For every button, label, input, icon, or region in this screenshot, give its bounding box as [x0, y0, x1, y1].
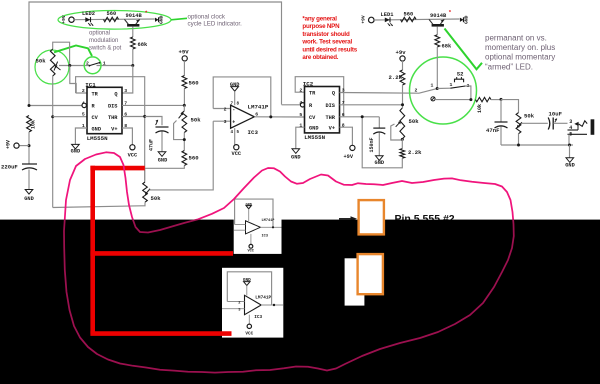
node IC3 output junction — [269, 115, 272, 118]
transistor Q2 9014B — [432, 24, 444, 27]
wire IC2 GND pin — [296, 127, 305, 148]
jack sleeve bar — [591, 119, 595, 135]
mod pot wiper arrow — [55, 65, 61, 70]
svg-text:4: 4 — [299, 100, 302, 106]
jack tip contact — [574, 122, 578, 126]
node rail-pot junction — [517, 144, 520, 147]
node +9V junction — [28, 144, 31, 147]
svg-text:LM741P: LM741P — [255, 295, 271, 300]
svg-text:+9V: +9V — [360, 15, 366, 24]
wire 10k to node — [491, 99, 501, 101]
resistor 560 mid lower — [182, 151, 187, 166]
wire 2.2k to DIS node — [402, 85, 404, 108]
resistor 10k left — [27, 116, 32, 133]
wire +9V terminal — [19, 145, 29, 147]
svg-text:cycle LED indicator.: cycle LED indicator. — [188, 20, 243, 27]
svg-text:10uF: 10uF — [549, 111, 563, 118]
potentiometer 50k bottom — [143, 182, 148, 202]
resistor 2.2k upper — [400, 70, 405, 85]
svg-text:VCC: VCC — [232, 151, 242, 157]
bottom pot wiper arrow — [145, 189, 150, 195]
svg-text:LM555N: LM555N — [87, 135, 108, 142]
wire jack to gnd rail — [568, 134, 570, 145]
svg-text:V+: V+ — [111, 126, 117, 132]
svg-text:IC3: IC3 — [248, 129, 259, 136]
node pot-CV junction — [51, 115, 54, 118]
ground IC1 — [72, 144, 80, 149]
terminal +9V LED1 — [369, 17, 375, 23]
wire IC1 THR — [122, 116, 145, 118]
svg-text:220uF: 220uF — [1, 164, 18, 171]
svg-text:50k: 50k — [36, 58, 47, 65]
svg-text:LED2: LED2 — [82, 11, 95, 17]
svg-text:LM741P: LM741P — [248, 104, 269, 111]
jack body lines — [568, 129, 579, 131]
svg-text:LM741P: LM741P — [262, 219, 275, 223]
wire 68k to S2 node — [436, 47, 438, 89]
svg-text:1: 1 — [103, 61, 106, 67]
svg-text:47uF: 47uF — [149, 139, 155, 151]
arrow to orange box — [339, 218, 352, 220]
svg-text:3: 3 — [224, 119, 227, 125]
svg-text:VCC: VCC — [128, 153, 138, 159]
wire 47nF to rail — [500, 127, 502, 146]
resistor 560 mid upper — [182, 76, 187, 89]
svg-text:“armed” LED.: “armed” LED. — [485, 62, 533, 71]
wire IC1 DIS to 560 node — [122, 104, 184, 106]
svg-text:optional momentary: optional momentary — [485, 53, 555, 62]
svg-text:IC2: IC2 — [303, 81, 314, 88]
wire IC1 reset pin net — [29, 105, 82, 107]
green pointer modulation — [54, 46, 92, 57]
svg-text:GND: GND — [158, 15, 164, 24]
wire out pot wiper to 10uF — [522, 122, 548, 124]
green pointer clock text — [171, 18, 187, 20]
potentiometer 50k output — [516, 113, 521, 134]
svg-text:560: 560 — [189, 80, 200, 87]
wire IC2 V+ pin — [340, 127, 353, 145]
wire 68k to switch node — [132, 49, 134, 66]
IC2 reset bubble — [300, 103, 304, 107]
svg-text:TR: TR — [92, 91, 99, 97]
wire S2 pin2 down — [465, 86, 471, 100]
green circle around switch S1 — [84, 57, 101, 74]
svg-text:switch & pot: switch & pot — [89, 46, 122, 52]
svg-text:transistor should: transistor should — [302, 31, 350, 38]
svg-text:CV: CV — [92, 115, 99, 121]
green circle around S2 — [410, 57, 477, 124]
orange highlight box 1 — [359, 200, 384, 234]
wire pot to 560 lower — [183, 133, 185, 151]
pink outline over black — [64, 152, 514, 372]
node switch-pot junction — [68, 64, 71, 67]
svg-text:+9V: +9V — [344, 154, 354, 160]
svg-text:*: * — [145, 10, 148, 17]
svg-text:+9v: +9v — [396, 49, 407, 56]
svg-text:+9V: +9V — [179, 49, 190, 56]
wire IC2 Q output — [340, 92, 420, 95]
white box behind orange 2 — [345, 258, 365, 305]
LED D2 symbol — [85, 17, 90, 22]
svg-text:GND: GND — [92, 126, 102, 132]
wire IC2 reset pin net — [282, 104, 301, 106]
S2 bracket — [455, 79, 464, 82]
svg-text:2: 2 — [82, 88, 85, 94]
svg-text:LM555N: LM555N — [304, 134, 325, 141]
svg-text:2: 2 — [415, 88, 418, 94]
terminal +9V mid — [182, 56, 187, 61]
red annotation middle segment — [90, 251, 233, 256]
svg-text:work. Test several: work. Test several — [301, 39, 352, 46]
wire IC2 THR — [340, 116, 380, 118]
op-amp copy 1 triangle — [246, 221, 261, 234]
node output RC junction — [500, 98, 503, 101]
wire 10uF to jack — [553, 122, 567, 124]
capacitor 47uF — [156, 126, 169, 128]
terminal +9V IC2 — [350, 145, 355, 150]
op-amp copy 1 VCC — [250, 234, 252, 245]
terminal +9v right — [400, 56, 405, 61]
47uF polarity arrow — [156, 120, 158, 125]
svg-text:momentary on. plus: momentary on. plus — [485, 43, 555, 52]
node DIS junction — [183, 104, 186, 107]
10uF polarity mark — [555, 119, 557, 122]
wire pot to 2.2k lower — [401, 139, 403, 149]
wire +9V/reset rail top — [29, 2, 282, 106]
svg-text:50k: 50k — [191, 117, 202, 124]
orange highlight box 2 — [358, 254, 383, 294]
svg-text:-: - — [232, 107, 235, 113]
svg-text:permanant on vs.: permanant on vs. — [485, 33, 547, 42]
resistor 68k right — [435, 35, 440, 47]
transistor Q1 9014B — [127, 24, 139, 27]
switch lower lever — [419, 89, 437, 94]
svg-text:+: + — [232, 119, 235, 125]
node S2 junction — [436, 87, 439, 90]
wire Q1 node to IC1 pin3 — [122, 66, 133, 94]
node pot bottom junction — [183, 138, 186, 141]
wire switch row — [59, 65, 133, 67]
svg-text:modulation: modulation — [89, 38, 118, 44]
svg-text:*: * — [448, 9, 451, 16]
wire LED2 circuit top — [74, 18, 155, 21]
mid pot wiper arrow — [179, 112, 184, 118]
svg-text:GND: GND — [565, 163, 575, 169]
wire node to 47nF — [500, 100, 502, 122]
wire 150nF to GND — [378, 133, 380, 156]
svg-text:10k: 10k — [477, 104, 483, 113]
wire pot bottom to CV rail — [52, 76, 54, 208]
wire IC3 pin2 input — [213, 108, 230, 110]
pink outline over white — [64, 152, 514, 372]
mid pot wiper loop — [174, 121, 185, 140]
op-amp copy 1 inputs — [235, 224, 246, 226]
svg-text:2: 2 — [299, 87, 302, 93]
resistor 10k output — [476, 97, 492, 101]
node IC2 DIS junction — [401, 103, 404, 106]
wire 47uF to GND — [161, 132, 163, 152]
svg-text:1: 1 — [450, 82, 453, 88]
svg-text:560: 560 — [189, 155, 200, 162]
op-amp copy 1 wires — [235, 199, 273, 227]
wire node to out pot — [501, 100, 519, 113]
node reset junction — [28, 104, 31, 107]
wire 10k to +9V node — [28, 132, 30, 164]
op-amp U-IC3 triangle — [231, 105, 255, 128]
svg-text:V+: V+ — [329, 126, 335, 132]
svg-text:68k: 68k — [442, 43, 452, 49]
svg-text:VCC: VCC — [247, 250, 254, 254]
svg-text:10k: 10k — [31, 120, 37, 129]
op-amp copy 2 wires — [227, 272, 271, 305]
op-amp copy 2 triangle — [245, 295, 262, 314]
resistor 560 LED2 — [104, 17, 119, 22]
wire rail to GND — [569, 145, 571, 158]
red annotation vertical line — [90, 166, 95, 334]
red annotation top segment — [90, 166, 144, 171]
momentary contact circle — [431, 97, 435, 101]
wire IC3 pin3 input — [213, 120, 230, 122]
wire Q1 base to 68k — [132, 27, 134, 37]
svg-text:IC1: IC1 — [85, 81, 96, 88]
wire IC3 output to IC2 CV — [254, 116, 304, 118]
capacitor 150nF — [373, 127, 385, 129]
svg-text:GND: GND — [463, 15, 469, 24]
wire IC1 V+ pin — [122, 128, 132, 145]
ground IC2 — [292, 149, 300, 154]
svg-text:50k: 50k — [524, 113, 535, 120]
svg-text:3: 3 — [124, 88, 127, 94]
wire DIS node down — [183, 105, 185, 111]
terminal +9V LED2 circuit — [69, 17, 74, 22]
op-amp copy 2 inputs — [227, 301, 244, 303]
svg-text:9014B: 9014B — [126, 13, 143, 19]
wire out pot to rail — [518, 134, 520, 145]
capacitor 220uF — [22, 163, 37, 165]
svg-text:THR: THR — [108, 115, 118, 121]
terminal VCC IC1 — [130, 145, 135, 150]
wire CV to IC1 — [53, 116, 87, 118]
svg-text:150nF: 150nF — [369, 137, 375, 152]
svg-text:IC3: IC3 — [254, 315, 262, 320]
wire Q2 base to 68k — [436, 27, 438, 35]
svg-text:DIS: DIS — [108, 104, 118, 110]
svg-text:5: 5 — [299, 112, 302, 118]
wire IC1 TR pin net — [70, 66, 87, 94]
white box op-amp copy 1 — [234, 197, 282, 254]
capacitor 10uF — [548, 118, 550, 130]
svg-text:GND: GND — [291, 154, 301, 160]
svg-text:GND: GND — [24, 196, 34, 202]
svg-text:until desired results: until desired results — [302, 46, 357, 53]
svg-text:560: 560 — [404, 11, 414, 17]
wire 150nF stem — [378, 117, 380, 128]
wire 220uF to GND — [28, 170, 30, 190]
op-amp copy 1 output — [260, 226, 281, 228]
switch S2 lever — [451, 86, 466, 88]
out pot wiper arrow — [517, 122, 522, 128]
black mask band — [0, 220, 600, 384]
node rail-gnd junction — [568, 144, 571, 147]
wire +9v to 2.2k — [402, 61, 404, 70]
ground 150nF — [376, 156, 384, 161]
wire 2.2k to THR loop — [362, 117, 402, 168]
IC2 pot wiper arrow — [396, 121, 401, 126]
svg-text:68k: 68k — [138, 42, 148, 48]
svg-text:optional: optional — [89, 31, 110, 37]
svg-text:2: 2 — [86, 61, 89, 67]
node 10k input junction — [469, 98, 472, 101]
wire THR to 47uF — [145, 117, 162, 126]
svg-text:are obtained.: are obtained. — [302, 54, 338, 61]
svg-text:*any general: *any general — [302, 16, 337, 23]
wire IC3 gnd stem — [234, 91, 236, 105]
svg-text:1: 1 — [431, 82, 434, 88]
wire IC1 GND pin — [75, 128, 87, 144]
svg-text:+9V: +9V — [61, 15, 67, 24]
resistor 560 LED1 — [401, 17, 417, 22]
potentiometer 50k mid — [182, 111, 187, 133]
green circle around 50k pot — [35, 50, 69, 84]
svg-text:IC3: IC3 — [262, 235, 268, 239]
diode to GND right indicator — [460, 18, 464, 22]
wire momentary to 10k node — [435, 99, 471, 101]
svg-text:GND: GND — [158, 158, 168, 164]
op-amp copy 2 output — [261, 304, 283, 306]
svg-text:2.2k: 2.2k — [389, 74, 403, 81]
node THR junction IC2 — [361, 115, 364, 118]
svg-text:47nF: 47nF — [486, 127, 500, 134]
IC2 LM555N box — [305, 87, 340, 133]
svg-text:GND: GND — [71, 149, 81, 155]
red annotation bottom segment — [90, 331, 231, 336]
node IC2 pot bottom — [401, 138, 404, 141]
svg-text:50k: 50k — [409, 118, 420, 125]
green ellipse clock LED indicator — [58, 10, 171, 29]
svg-text:S2: S2 — [457, 70, 464, 77]
svg-text:GND: GND — [375, 160, 385, 166]
wire S2 node to lever — [437, 87, 450, 89]
svg-text:VCC: VCC — [245, 331, 253, 336]
node switch out junction — [131, 64, 134, 67]
potentiometer 50k modulation — [50, 49, 55, 76]
ground 47uF — [158, 152, 166, 157]
svg-text:TR: TR — [309, 91, 316, 97]
IC2 pot wiper loop — [391, 124, 403, 140]
wire IC3 vcc stem — [234, 128, 236, 144]
svg-text:560: 560 — [107, 11, 117, 17]
wire bottom pot wiper to IC3 pin3 — [150, 121, 214, 190]
svg-text:CV: CV — [309, 115, 316, 121]
svg-text:5: 5 — [82, 112, 85, 118]
node THR junction — [143, 115, 146, 118]
svg-text:2: 2 — [224, 106, 227, 112]
terminal +9V left — [14, 143, 19, 148]
wire LED1 circuit — [374, 19, 459, 20]
svg-text:optional clock: optional clock — [188, 13, 226, 20]
svg-text:THR: THR — [325, 115, 335, 121]
svg-text:GND: GND — [309, 126, 319, 132]
svg-text:DIS: DIS — [325, 103, 335, 109]
IC1 reset bubble — [82, 103, 86, 107]
wire to bottom 50k pot — [144, 168, 146, 182]
resistor 68k left — [131, 37, 136, 49]
ground left column — [25, 190, 33, 195]
wire 560 lower to red node — [145, 166, 185, 169]
capacitor 47nF — [495, 121, 508, 123]
wire IC1 TR-THR tie box — [76, 77, 145, 181]
white box op-amp copy 2 — [222, 268, 283, 338]
IC1 LM555N box — [87, 87, 122, 133]
LED D1 symbol — [385, 18, 390, 23]
svg-text:50k: 50k — [151, 195, 162, 202]
svg-text:purpose NPN: purpose NPN — [302, 23, 340, 30]
wire +9V to 560 — [183, 61, 185, 76]
ground output — [566, 158, 574, 163]
svg-text:LED1: LED1 — [381, 12, 394, 18]
svg-text:9014B: 9014B — [430, 13, 447, 19]
wire 560 to DIS node — [183, 89, 185, 106]
diode to GND left indicator — [155, 18, 159, 22]
svg-text:2.2k: 2.2k — [408, 149, 422, 156]
wire IC2 DIS — [340, 104, 403, 106]
op-amp copy 2 VCC — [248, 315, 250, 324]
svg-text:+9V: +9V — [6, 140, 12, 149]
wire pot top loop — [53, 42, 70, 65]
wire IC2 TR tie — [295, 77, 344, 117]
wire IC3 feedback top — [213, 77, 271, 117]
terminal VCC IC3 — [234, 145, 239, 150]
green pointer S2 — [445, 29, 483, 70]
svg-text:3: 3 — [569, 119, 572, 125]
potentiometer 50k IC2 — [400, 108, 405, 139]
resistor 2.2k lower — [400, 149, 405, 159]
wire bottom pot to rail — [53, 202, 145, 207]
switch S1 lever — [89, 64, 97, 67]
wire output gnd rail — [501, 144, 573, 146]
